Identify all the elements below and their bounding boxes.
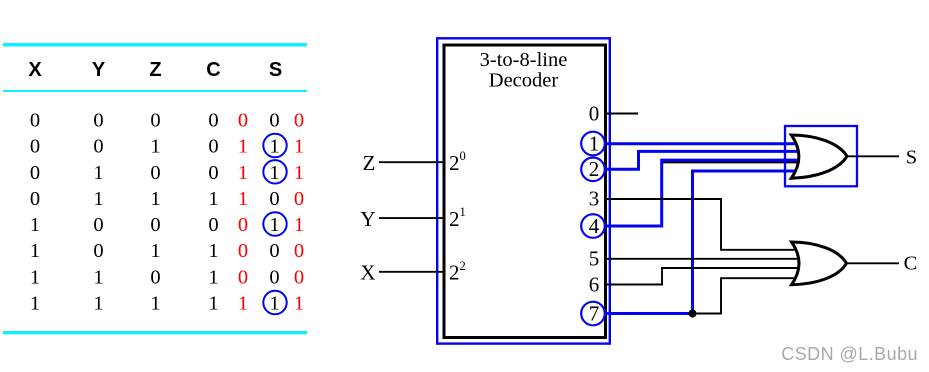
svg-text:0: 0: [238, 214, 248, 236]
wire output 6 to OR C: [606, 268, 798, 285]
svg-text:CSDN @L.Bubu: CSDN @L.Bubu: [781, 344, 918, 364]
svg-text:0: 0: [208, 162, 218, 184]
decoder U1 inner black box: [444, 45, 606, 338]
svg-text:3-to-8-line: 3-to-8-line: [480, 49, 568, 71]
column S red left values: [238, 110, 248, 315]
column C values: [208, 110, 218, 315]
wire OR C output: [847, 262, 900, 264]
svg-text:0: 0: [294, 188, 304, 210]
svg-text:S: S: [906, 147, 917, 169]
decoder U1 outer blue box: [437, 38, 610, 343]
minterm circle row3: [263, 160, 286, 183]
wire output 1 to OR S: [606, 142, 800, 145]
svg-text:0: 0: [208, 110, 218, 132]
table bottom rule: [3, 331, 307, 334]
svg-text:Z: Z: [363, 151, 376, 175]
svg-text:1: 1: [269, 293, 279, 315]
column Y values: [93, 110, 103, 315]
svg-text:1: 1: [30, 293, 40, 315]
svg-text:0: 0: [150, 110, 160, 132]
svg-text:0: 0: [93, 240, 103, 262]
svg-text:Y: Y: [360, 207, 375, 231]
table top rule: [3, 43, 307, 47]
column X values: [30, 110, 40, 315]
wire OR S output: [847, 155, 899, 157]
svg-text:1: 1: [208, 293, 218, 315]
minterm circle pin1: [581, 132, 605, 156]
svg-text:0: 0: [269, 188, 279, 210]
minterm circle pin4: [581, 214, 605, 238]
svg-text:2: 2: [589, 157, 600, 181]
svg-text:1: 1: [269, 162, 279, 184]
svg-text:0: 0: [238, 266, 248, 288]
or-gate S: [791, 135, 847, 178]
svg-text:1: 1: [93, 162, 103, 184]
svg-text:1: 1: [208, 266, 218, 288]
svg-text:1: 1: [294, 293, 304, 315]
svg-text:0: 0: [30, 188, 40, 210]
wire output 4 original black to OR S: [663, 161, 800, 163]
blue box around or-gate S: [785, 126, 857, 186]
svg-text:S: S: [269, 59, 282, 81]
svg-text:C: C: [206, 59, 220, 81]
svg-text:1: 1: [150, 293, 160, 315]
wire output 7 branch to OR C: [693, 278, 799, 313]
svg-text:Z: Z: [149, 59, 161, 81]
column Z values: [150, 110, 160, 315]
svg-text:Decoder: Decoder: [489, 70, 559, 92]
svg-text:0: 0: [238, 110, 248, 132]
table header rule: [3, 90, 307, 92]
svg-text:1: 1: [93, 188, 103, 210]
wire output 4 to OR S: [606, 160, 800, 226]
minterm circle row5: [263, 212, 286, 235]
svg-text:0: 0: [150, 266, 160, 288]
svg-text:0: 0: [269, 266, 279, 288]
svg-text:1: 1: [294, 162, 304, 184]
svg-text:1: 1: [589, 131, 600, 155]
svg-text:0: 0: [30, 162, 40, 184]
wire output 7 to OR S: [606, 171, 800, 314]
svg-text:Y: Y: [92, 59, 106, 81]
svg-text:1: 1: [30, 240, 40, 262]
wire input Y: [379, 217, 444, 219]
wire stub output 0: [606, 113, 638, 115]
svg-text:1: 1: [30, 266, 40, 288]
junction dot node 7: [689, 310, 697, 318]
svg-text:6: 6: [589, 273, 600, 297]
svg-text:1: 1: [238, 136, 248, 158]
svg-text:1: 1: [93, 293, 103, 315]
svg-text:0: 0: [30, 136, 40, 158]
svg-text:0: 0: [238, 240, 248, 262]
svg-text:7: 7: [589, 301, 600, 325]
column S red right values: [294, 110, 304, 315]
or-gate C: [792, 242, 847, 285]
wire input Z: [379, 161, 444, 163]
svg-text:0: 0: [294, 266, 304, 288]
svg-text:0: 0: [150, 162, 160, 184]
svg-text:1: 1: [93, 266, 103, 288]
svg-text:0: 0: [93, 214, 103, 236]
wire output 5 to OR C: [606, 258, 798, 260]
minterm circle row8: [263, 291, 286, 314]
svg-text:0: 0: [93, 136, 103, 158]
svg-text:1: 1: [294, 136, 304, 158]
svg-text:0: 0: [294, 240, 304, 262]
svg-text:0: 0: [208, 136, 218, 158]
svg-text:1: 1: [208, 188, 218, 210]
wire output 2 to OR S: [606, 151, 800, 169]
svg-text:1: 1: [150, 240, 160, 262]
svg-text:3: 3: [589, 187, 600, 211]
svg-text:1: 1: [150, 188, 160, 210]
svg-text:0: 0: [30, 110, 40, 132]
svg-text:0: 0: [208, 214, 218, 236]
svg-text:C: C: [904, 253, 918, 275]
svg-text:5: 5: [589, 247, 600, 271]
minterm circle pin2: [581, 158, 605, 182]
wire output 3 to OR C: [606, 199, 798, 250]
svg-text:X: X: [360, 261, 375, 285]
svg-text:0: 0: [269, 110, 279, 132]
svg-text:0: 0: [294, 110, 304, 132]
svg-text:1: 1: [238, 162, 248, 184]
svg-text:1: 1: [30, 214, 40, 236]
svg-text:1: 1: [269, 136, 279, 158]
svg-text:0: 0: [150, 214, 160, 236]
svg-text:4: 4: [589, 214, 600, 238]
svg-text:1: 1: [238, 293, 248, 315]
svg-text:1: 1: [208, 240, 218, 262]
svg-text:1: 1: [269, 214, 279, 236]
svg-text:1: 1: [238, 188, 248, 210]
column S middle values: [269, 110, 279, 315]
wire input X: [379, 271, 444, 273]
svg-text:1: 1: [150, 136, 160, 158]
svg-text:0: 0: [589, 101, 600, 125]
svg-text:0: 0: [93, 110, 103, 132]
svg-text:0: 0: [269, 240, 279, 262]
svg-text:X: X: [28, 59, 42, 81]
svg-text:1: 1: [294, 214, 304, 236]
minterm circle row2: [263, 134, 286, 157]
minterm circle pin7: [581, 302, 605, 326]
